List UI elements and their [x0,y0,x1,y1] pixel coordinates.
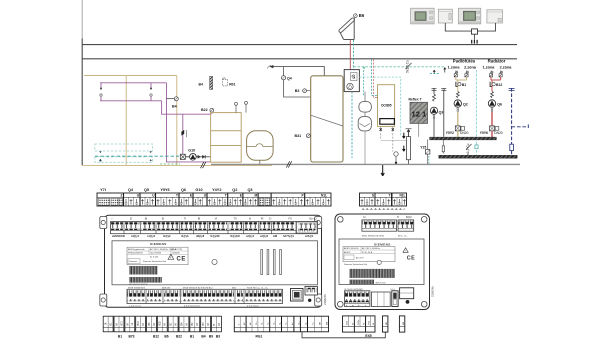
svg-text:5x1,5 Cu: 5x1,5 Cu [466,143,470,156]
svg-text:EX5: EX5 [365,334,371,338]
svg-text:2358Z48: 2358Z48 [323,294,327,305]
bus line lower [82,58,517,60]
svg-text:TI: TI [184,217,187,221]
room unit terminal strip RG1 [234,316,328,338]
strip-module link hatch [362,206,405,210]
flow arrows [403,133,405,139]
svg-text:BI: BI [198,217,201,221]
svg-text:!: ! [170,256,171,260]
svg-text:CE0036: CE0036 [172,253,180,255]
svg-text:t1@y1M: t1@y1M [230,235,240,238]
center hole [212,259,217,264]
button [406,300,410,304]
svg-text:Padlófűtés: Padlófűtés [453,59,476,64]
solar collector B6 [340,18,354,40]
svg-text:M: M [352,323,354,325]
designation row [362,236,408,238]
mixing valve Y5Y2 [455,126,460,131]
pump Q3 [433,88,435,94]
svg-text:12 1: 12 1 [412,110,428,119]
flow manifold bar [430,137,497,140]
terminal strip X1 labels [100,188,252,192]
balancing valve [180,154,185,159]
svg-text:AVS75.390/109: AVS75.390/109 [344,247,359,250]
hole [377,260,381,264]
valve fitting [358,117,371,131]
screw BL [338,301,344,307]
svg-text:B22: B22 [160,321,162,326]
svg-text:M: M [373,323,375,325]
pipe to tank [284,80,311,97]
signal fitting [394,152,398,156]
svg-text:AVS Regeltechnik: AVS Regeltechnik [128,248,146,251]
svg-text:Reflex T: Reflex T [409,98,423,102]
svg-text:FII: FII [288,217,291,221]
svg-text:a m b m a b: a m b m a b [129,305,141,307]
svg-text:TI: TI [397,215,400,219]
pipe break mark [286,161,291,167]
screw TR [421,217,427,223]
boiler Q5 [344,70,359,92]
green bus wire [160,163,180,165]
frame left vertical border [81,0,83,39]
module field strip [343,316,405,338]
svg-text:M: M [186,323,188,325]
svg-text:5x1,5 Cu: 5x1,5 Cu [406,60,410,73]
svg-text:E: E [190,194,192,198]
barcode [129,266,158,275]
shutoff valve [181,130,184,136]
flex fitting [491,92,494,98]
svg-text:ZI: ZI [130,217,133,221]
svg-text:Y5Y6: Y5Y6 [480,131,488,135]
bus junction box [472,29,478,34]
svg-text:t1@y3: t1@y3 [181,235,189,238]
loop stub heads [100,94,102,96]
screw BR [421,301,427,307]
svg-text:1.zóna: 1.zóna [483,65,496,69]
svg-text:Z: Z [121,194,123,198]
floor circuit pipe (tan) [456,77,467,92]
svg-text:z2A@1: z2A@1 [305,235,314,238]
svg-text:Q6: Q6 [181,188,186,192]
svg-text:RVS63.283/109: RVS63.283/109 [128,253,143,255]
svg-text:Y15: Y15 [420,146,426,150]
svg-text:RI: RI [261,217,264,221]
svg-text:B73: B73 [128,335,134,339]
screw TL [338,217,344,223]
svg-text:M: M [175,323,177,325]
type label [127,247,188,265]
svg-text:w2/29Ch36: w2/29Ch36 [112,235,126,238]
svg-text:SIEMENS: SIEMENS [150,242,167,246]
barcode [349,269,395,278]
svg-text:B4: B4 [199,83,203,87]
manifold sensor [235,105,237,112]
radiator valve z1b [490,72,494,77]
mounting ear TL [100,217,107,229]
svg-text:s2@y4: s2@y4 [246,235,255,238]
svg-text:S: S [372,194,374,198]
svg-text:AI: AI [363,215,366,219]
svg-text:B12: B12 [138,321,140,326]
radiator circuit pipe (red) [491,77,501,92]
svg-text:N1L: N1L [321,194,327,198]
svg-text:AC 02 F: AC 02 F [356,257,364,260]
svg-text:B4: B4 [172,104,177,108]
svg-text:B: B [249,217,251,221]
svg-text:B12: B12 [496,83,502,87]
extension module N2 (AVS75) [335,206,435,309]
svg-text:VI: VI [215,217,218,221]
expansion vessel [247,131,274,161]
svg-text:s1@y3: s1@y3 [147,235,156,238]
svg-text:AC 230 V, 50/60 Hz: AC 230 V, 50/60 Hz [362,247,380,250]
cold water inlet [272,67,324,77]
svg-text:M: M [165,323,167,325]
svg-text:Q2: Q2 [232,188,237,192]
svg-text:IP 00 / FW: IP 00 / FW [172,249,182,251]
svg-text:M: M [154,323,156,325]
svg-text:Q3: Q3 [439,111,444,115]
svg-text:TII: TII [233,217,236,221]
svg-text:BPZ:RVS63.283/109: BPZ:RVS63.283/109 [129,284,148,286]
top connector labels [112,217,317,221]
svg-text:CL-: CL- [262,321,264,325]
floor circuit frame (tan) [82,76,272,166]
pump control wire (teal dashed) [95,155,179,157]
svg-text:2.zóna: 2.zóna [500,65,513,69]
controller N1 (RVS63) [100,215,322,307]
svg-text:T: T [176,194,178,198]
svg-text:s2@y6: s2@y6 [260,235,269,238]
svg-text:R01: R01 [229,83,235,87]
bus box 2 [399,316,404,332]
flex fitting [456,92,459,98]
OCI wires [380,126,382,139]
svg-text:B73: B73 [121,321,123,326]
svg-text:E: E [240,194,242,198]
aux connector [305,287,318,296]
svg-text:M: M [143,323,145,325]
svg-text:Typ: RVS63: Typ: RVS63 [150,253,162,255]
svg-text:Q6: Q6 [497,102,502,106]
svg-text:Siemens Switzerland Ltd: Siemens Switzerland Ltd [143,260,167,263]
terminal pin symbols [125,199,330,206]
bus tap ticks [472,40,477,44]
module OCI365 [378,85,395,127]
barcode 2 [129,277,162,283]
inner panel [339,239,424,285]
svg-text:B1: B1 [118,335,122,339]
terminal strip X2 (module) [360,193,407,206]
wire junction to bus [473,34,475,40]
top terminal comb [111,222,318,234]
pump Q4 [283,67,285,76]
svg-text:M: M [197,323,199,325]
top comb A [362,220,397,231]
svg-text:Y7I: Y7I [100,188,106,192]
empty terminal block [371,292,390,307]
svg-text:Y5Y6: Y5Y6 [160,188,169,192]
svg-text:t1@y3: t1@y3 [163,235,171,238]
svg-text:Radiátor: Radiátor [488,59,506,64]
svg-text:1.zóna: 1.zóna [448,65,461,69]
svg-text:CE: CE [177,257,187,263]
svg-text:s3@y1: s3@y1 [131,235,140,238]
svg-text:Q2: Q2 [463,102,468,106]
svg-text:OCI365: OCI365 [381,104,392,108]
mixing valve Y5Y6 [490,126,495,131]
return manifold bar [439,155,518,158]
svg-text:2358Z4b: 2358Z4b [431,286,435,297]
collector sensor B6 [354,14,358,18]
svg-text:B6: B6 [359,13,365,18]
wire [381,140,407,142]
svg-text:Q4: Q4 [128,188,134,192]
svg-text:B12: B12 [153,335,159,339]
terminal strip X1 body [97,193,331,206]
svg-text:B6: B6 [164,335,168,339]
svg-text:IP 20, 02 A: IP 20, 02 A [362,251,373,254]
svg-text:B22: B22 [176,335,182,339]
pipe break mark [201,162,206,168]
button [308,299,311,302]
heating loop zone (purple) [100,83,167,101]
svg-text:Y5Y2: Y5Y2 [446,131,454,135]
svg-text:T: T [225,194,227,198]
svg-text:B9: B9 [209,335,213,339]
drain arrow [381,164,384,176]
bus line upper [82,44,517,46]
svg-text:CL-: CL- [305,321,307,325]
distribution manifold box [211,113,242,163]
svg-text:CI: CI [269,217,272,221]
svg-text:M G+ CL-: M G+ CL- [398,236,408,238]
svg-text:M: M [116,323,118,325]
svg-text:B1: B1 [462,83,466,87]
svg-text:DN20: DN20 [460,131,469,135]
svg-text:r1@y2N: r1@y2N [210,235,220,238]
relay box [400,288,414,299]
OCI bus wire pair [372,59,378,95]
pump Q6 [488,100,495,107]
svg-text:Q3: Q3 [247,188,252,192]
return riser [443,88,445,137]
sensor B12 [490,82,492,87]
room unit A8 (QAA75) [458,8,481,24]
main return pipe [211,163,520,165]
room unit A7 (QAA55) [438,9,452,23]
check valve [198,155,201,159]
wire [364,92,366,102]
svg-text:Siemens: Siemens [129,261,137,263]
svg-text:AVS75.390: AVS75.390 [376,282,387,285]
svg-text:SIEMENS: SIEMENS [374,242,391,246]
bottom labels [345,289,396,291]
service connector [291,289,304,302]
radiator valve z1a [454,72,458,77]
mounting ear BR [315,294,322,306]
svg-text:M: M [219,323,221,325]
boiler control wire [351,92,353,158]
svg-text:d3@y8: d3@y8 [196,235,205,238]
DHW storage tank [311,76,343,162]
svg-text:B3: B3 [295,89,300,93]
svg-text:AVS75: AVS75 [344,251,351,254]
svg-text:T: T [389,194,391,198]
burner [347,83,353,89]
svg-text:Q4: Q4 [287,77,292,81]
warning triangle [168,254,174,259]
svg-text:BX21 M BX22 M UX21: BX21 M BX22 M UX21 [362,236,385,238]
sensor B4 [167,83,211,162]
bus box [383,316,388,332]
valve supply stubs [456,71,501,74]
svg-text:2.zóna: 2.zóna [464,65,477,69]
svg-text:wM: wM [273,235,277,238]
boiler bus wire [359,77,400,137]
terminal pin cells [129,197,326,206]
svg-text:DN20: DN20 [494,131,503,135]
designation row [297,222,318,233]
svg-text:BI: BI [145,217,148,221]
solar control wire [353,40,355,70]
svg-text:G10: G10 [188,148,195,152]
bottom comb [345,291,370,307]
controller bottom connectors [127,287,327,308]
svg-text:1K: 1K [106,322,108,325]
fuse terminal cells [98,198,110,205]
flow arrow [433,70,435,74]
svg-text:EI: EI [162,217,165,221]
return pipe (navy) [511,88,513,144]
svg-text:b m b m b b m b: b m b m b b m b [184,305,201,307]
svg-text:B22: B22 [201,108,208,112]
svg-text:!: ! [405,249,406,253]
svg-text:RG1: RG1 [256,335,263,339]
field terminal strip X10 [103,316,221,338]
inner panel [112,241,318,285]
svg-text:M: M [127,323,129,325]
sensor B1 [456,82,458,87]
radiator valve z2b [499,72,503,77]
svg-text:Kl. II 245: Kl. II 245 [150,257,159,259]
svg-text:B(2)I: B(2)I [406,215,412,219]
radiator valve z2a [465,72,469,77]
pump Q2 [454,100,461,107]
manifold sensor 2 [245,104,247,112]
svg-text:CL-: CL- [279,321,281,325]
loop arrows [99,151,101,153]
mounting ear TR [315,217,322,229]
svg-text:B3: B3 [216,335,220,339]
room unit bus wire [445,23,495,31]
LPB bus wire [302,332,385,338]
svg-text:G10: G10 [195,188,202,192]
floor loop bank (dashed) [95,144,153,151]
bar sensor fitting [442,140,444,154]
svg-text:N(+)LI: N(+)LI [309,217,317,221]
pump fitting [359,102,372,113]
svg-text:b m b m b b: b m b m b b [247,305,259,307]
solar pipe wire [349,40,351,70]
switch [392,291,398,307]
svg-text:Siemens Switzerland Ltd: Siemens Switzerland Ltd [344,263,368,266]
svg-text:4A77y@z: 4A77y@z [283,235,295,238]
svg-text:m: m [352,305,354,307]
mounting ear BL [100,294,107,306]
svg-text:B1: B1 [190,335,194,339]
pump control wire [363,67,365,96]
floor loop bank 2 (dashed) [95,157,153,162]
vent slots [261,250,282,275]
pipe branch to pump (purple) [162,101,211,154]
svg-text:B31: B31 [295,134,302,138]
top comb B [398,220,414,231]
svg-text:M: M [208,323,210,325]
room unit A9 (QAA55) [487,10,503,23]
svg-text:Q5: Q5 [144,188,149,192]
svg-text:B4: B4 [201,335,205,339]
svg-text:M: M [254,194,257,198]
return wire (cyan) [476,70,478,155]
svg-text:CE: CE [407,256,416,262]
svg-text:Q5: Q5 [351,74,355,78]
room unit A6 (QAA75) [411,8,435,24]
svg-text:M: M [364,323,366,325]
dirt separator [407,137,411,160]
svg-text:Y4Y2: Y4Y2 [212,188,221,192]
svg-text:N1L: N1L [399,194,405,198]
